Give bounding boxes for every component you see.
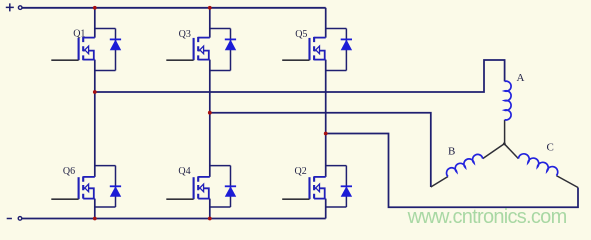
svg-text:Q2: Q2 — [295, 166, 307, 177]
svg-text:www.cntronics.com: www.cntronics.com — [407, 206, 567, 228]
svg-text:C: C — [547, 142, 554, 154]
svg-text:Q1: Q1 — [73, 29, 85, 40]
svg-text:A: A — [517, 72, 525, 84]
svg-text:Q3: Q3 — [179, 29, 191, 40]
svg-text:Q4: Q4 — [178, 166, 190, 177]
svg-text:B: B — [448, 146, 455, 158]
svg-text:Q5: Q5 — [295, 29, 307, 40]
svg-text:Q6: Q6 — [63, 166, 75, 177]
